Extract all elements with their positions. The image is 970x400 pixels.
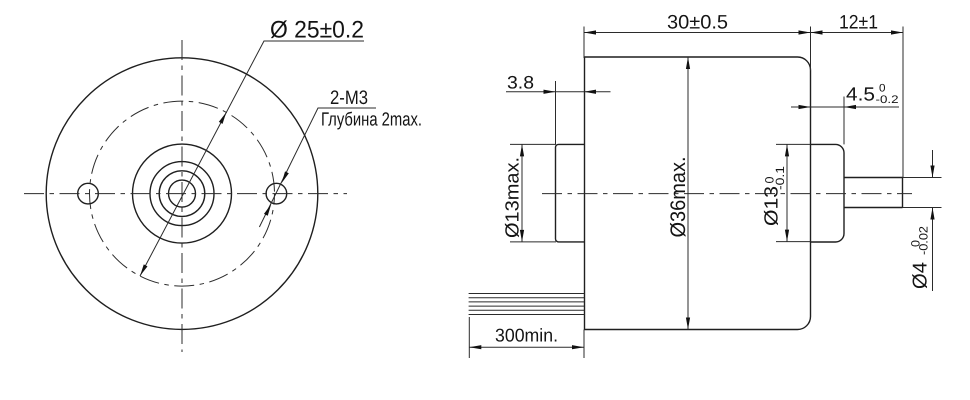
- svg-text:Ø13: Ø13: [762, 186, 783, 226]
- dim D4 extension bottom: [903, 207, 942, 209]
- arrow 12 left: [811, 30, 823, 34]
- inner ring circle: [159, 171, 205, 217]
- lead wire 6: [469, 314, 585, 316]
- lead wire 4: [469, 305, 585, 307]
- mounting hole right: [266, 183, 287, 204]
- diameter 25 leader line: [140, 41, 364, 276]
- svg-text:300min.: 300min.: [495, 325, 558, 346]
- 2-M3 leader: [259, 108, 376, 227]
- dim D4 upper arrow line: [932, 150, 934, 178]
- rear boss outline: [811, 144, 845, 242]
- dim 300min extension left: [468, 317, 470, 358]
- shaft end line: [902, 178, 904, 208]
- arrow D13max bottom: [520, 230, 524, 242]
- dim line 30: [584, 32, 811, 34]
- arrow 300min left: [469, 345, 481, 349]
- arrow D13-0.1 bottom: [785, 230, 789, 242]
- svg-text:Ø13max.: Ø13max.: [503, 157, 524, 238]
- body front face (flange) thick edge: [584, 57, 586, 330]
- arrowhead at hole lower edge: [264, 203, 273, 216]
- svg-text:12±1: 12±1: [839, 12, 878, 34]
- arrow D13max top: [520, 144, 524, 156]
- arrow 3.8 right: [584, 90, 596, 94]
- svg-text:-0.02: -0.02: [917, 226, 931, 255]
- svg-text:-0.1: -0.1: [773, 166, 787, 190]
- arrowhead lower on bolt circle: [138, 264, 147, 277]
- dim D13-0.1 extension top: [776, 143, 811, 145]
- outer body circle: [46, 58, 318, 330]
- lead wire 3: [469, 301, 585, 303]
- dim 4.5 extension line: [843, 97, 845, 145]
- dim 12+-1 extension line (shaft end): [902, 27, 904, 178]
- horizontal centerline: [24, 193, 347, 195]
- svg-text:4.5: 4.5: [846, 85, 875, 106]
- svg-text:Ø 25±0.2: Ø 25±0.2: [270, 17, 364, 44]
- svg-text:0: 0: [879, 83, 886, 95]
- lead wire 5: [469, 309, 585, 311]
- arrow D36max top: [686, 57, 690, 69]
- dim D13max extension bottom: [510, 241, 556, 243]
- dim line 3.8: [506, 91, 611, 93]
- shaft top line: [844, 177, 903, 179]
- arrow D13-0.1 top: [785, 144, 789, 156]
- dim D36max line: [687, 57, 689, 330]
- svg-text:Глубина 2max.: Глубина 2max.: [321, 110, 422, 131]
- svg-text:Ø36max.: Ø36max.: [667, 157, 690, 238]
- bearing ring circle: [150, 162, 214, 226]
- arrow 12 right: [891, 30, 903, 34]
- front boss circle: [133, 144, 232, 243]
- dim line 4.5: [791, 106, 899, 108]
- arrow 30 left: [584, 30, 596, 34]
- dim D13-0.1 extension bottom: [776, 241, 811, 243]
- arrow 30 right: [799, 30, 811, 34]
- svg-text:3.8: 3.8: [507, 73, 534, 93]
- arrow D36max bottom: [686, 318, 690, 330]
- arrow 4.5 right: [844, 105, 856, 109]
- bolt circle (dash-dot): [90, 101, 275, 286]
- shaft bottom line: [844, 207, 903, 209]
- lead wire 1: [469, 293, 585, 295]
- svg-text:30±0.5: 30±0.5: [667, 12, 728, 34]
- dim 3.8 extension line: [555, 81, 557, 144]
- arrow 4.5 left: [799, 105, 811, 109]
- dim line D13max: [521, 144, 523, 242]
- dim D4 lower arrow line and text underline: [932, 208, 934, 292]
- shaft circle (thick): [169, 180, 196, 207]
- svg-text:-0.2: -0.2: [876, 94, 899, 106]
- vertical centerline: [181, 40, 183, 352]
- dim D13max extension top: [510, 143, 556, 145]
- svg-text:Ø4: Ø4: [910, 262, 932, 289]
- dim line 300min: [469, 346, 584, 348]
- front boss outline: [556, 144, 585, 242]
- svg-text:2-M3: 2-M3: [330, 87, 368, 109]
- arrow 3.8 left: [544, 90, 556, 94]
- dim line D13-0.1: [786, 144, 788, 241]
- body outline: [584, 57, 811, 330]
- arrowhead at hole upper edge: [280, 171, 289, 184]
- dim 30+-0.5 extension line right (body rear): [810, 27, 812, 71]
- arrow D4 bottom: [930, 208, 934, 220]
- shaft centerline: [542, 193, 912, 195]
- arrow 300min right: [572, 345, 584, 349]
- dim 30+-0.5 extension line left: [583, 27, 585, 59]
- arrow D4 top: [930, 166, 934, 178]
- dim D4 extension top (shaft line extended): [903, 177, 942, 179]
- dim line 12: [811, 32, 904, 34]
- arrowhead upper on bolt circle: [219, 111, 228, 124]
- mounting hole left: [78, 183, 99, 204]
- dim 300min extension right: [583, 330, 585, 359]
- lead wire 2: [469, 297, 585, 299]
